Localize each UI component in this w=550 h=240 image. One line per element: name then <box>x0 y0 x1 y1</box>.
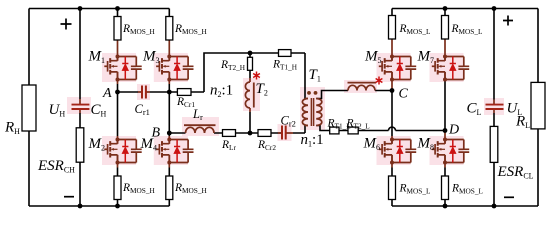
svg-text:B: B <box>152 126 161 141</box>
svg-text:RCr1: RCr1 <box>176 96 195 109</box>
svg-text:RL: RL <box>515 114 530 131</box>
svg-text:M1: M1 <box>88 49 106 66</box>
svg-text:CL: CL <box>467 101 482 118</box>
svg-text:n1:1: n1:1 <box>301 132 324 149</box>
svg-text:ESRCL: ESRCL <box>497 164 534 181</box>
svg-text:RLr: RLr <box>221 139 236 152</box>
svg-text:Cr1: Cr1 <box>135 102 150 117</box>
svg-text:RT2_H: RT2_H <box>220 59 246 72</box>
svg-text:RMOS_L: RMOS_L <box>399 23 431 36</box>
svg-text:M5: M5 <box>364 49 382 66</box>
svg-text:RT1_H: RT1_H <box>272 59 298 72</box>
svg-text:C: C <box>399 87 409 102</box>
svg-text:UH: UH <box>49 102 66 119</box>
svg-text:M3: M3 <box>142 49 160 66</box>
svg-text:RMOS_H: RMOS_H <box>122 23 155 36</box>
svg-text:D: D <box>448 123 459 138</box>
svg-text:RH: RH <box>4 120 20 137</box>
svg-text:RMOS_L: RMOS_L <box>451 183 483 196</box>
svg-text:M7: M7 <box>417 49 435 66</box>
svg-text:n2:1: n2:1 <box>210 83 233 100</box>
svg-text:RMOS_L: RMOS_L <box>451 23 483 36</box>
svg-text:RCr2: RCr2 <box>257 139 276 152</box>
svg-text:CH: CH <box>91 102 107 119</box>
svg-text:RMOS_H: RMOS_H <box>122 182 155 195</box>
svg-text:A: A <box>102 86 112 101</box>
svg-text:RMOS_H: RMOS_H <box>174 23 207 36</box>
svg-text:RT2_L: RT2_L <box>346 118 371 131</box>
svg-text:T1: T1 <box>309 67 321 84</box>
svg-text:RMOS_H: RMOS_H <box>174 182 207 195</box>
svg-text:T2: T2 <box>256 81 268 98</box>
svg-text:ESRCH: ESRCH <box>37 158 75 175</box>
svg-text:Cr2: Cr2 <box>281 114 296 129</box>
svg-text:Lr: Lr <box>192 107 203 122</box>
svg-text:RMOS_L: RMOS_L <box>399 183 431 196</box>
